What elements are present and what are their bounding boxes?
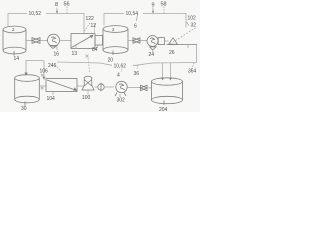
wire tick under ramp [187, 45, 189, 49]
svg-text:204: 204 [159, 107, 168, 112]
svg-text:14: 14 [14, 56, 20, 62]
wire valve3 to tank4 [147, 87, 152, 89]
check valve / orifice [98, 83, 104, 91]
wire bus A (top-left header line) [8, 14, 84, 34]
burner/ejector (100) [82, 76, 95, 90]
wire drop to box2 [43, 61, 45, 78]
wire stub near box1 top right [94, 24, 96, 34]
node label 10,52 on bus A [27, 10, 46, 17]
wire orifice to pump3 [104, 86, 114, 88]
svg-text:104: 104 [47, 96, 56, 102]
svg-text:4: 4 [117, 73, 120, 79]
pump P2 (24) [147, 36, 164, 51]
wire tick label 84 [97, 45, 99, 48]
wire tick 8 arrow [56, 8, 58, 14]
svg-text:58: 58 [161, 2, 167, 8]
wire leader 6 below bus B [137, 14, 138, 21]
wire right downcomer [196, 45, 198, 63]
svg-text:246: 246 [48, 63, 57, 69]
wire bottom bus (10,62) [26, 61, 44, 74]
wire leader 32 [187, 22, 190, 26]
svg-text:364: 364 [188, 69, 197, 75]
svg-text:8: 8 [55, 2, 58, 8]
dashed diagonal skimmer [170, 28, 196, 45]
wire leader label 12 (dashed) [85, 23, 91, 31]
wire tank3 to box2 [39, 85, 46, 87]
wire tick label 104 [52, 92, 54, 96]
valve V3 [141, 85, 148, 90]
wire tick label 302 [119, 94, 121, 97]
svg-text:9: 9 [152, 3, 155, 9]
wire tick label 4 [121, 69, 122, 72]
svg-text:10,54: 10,54 [126, 11, 139, 17]
svg-text:56: 56 [64, 2, 70, 8]
wire tick label 100 [87, 90, 89, 95]
svg-text:32: 32 [191, 23, 197, 29]
svg-text:106: 106 [40, 69, 49, 75]
wire drops into tank4 [162, 63, 164, 79]
svg-text:24: 24 [149, 52, 155, 58]
wire x-mark small [41, 87, 44, 90]
tank T3 (30) [15, 75, 40, 106]
wire tick label 36 [137, 66, 138, 70]
tank T1 (vessel 2) [3, 26, 26, 55]
wire tick for label 16 [56, 47, 58, 51]
svg-text:100: 100 [82, 95, 91, 101]
wire tick label 24 [152, 50, 154, 52]
svg-text:10,52: 10,52 [29, 11, 42, 17]
svg-text:13: 13 [72, 51, 78, 57]
arrow into tank3 [24, 73, 27, 77]
svg-text:16: 16 [54, 52, 60, 58]
heat-exchanger box E1 (12) [71, 34, 103, 49]
pump P3 (302) [115, 81, 127, 96]
wire tick 56 dashed leader [66, 7, 68, 14]
separator ramp (26) [167, 44, 198, 46]
svg-text:102: 102 [188, 16, 197, 22]
svg-text:122: 122 [86, 16, 95, 22]
valve V1 [32, 38, 40, 44]
svg-text:10,62: 10,62 [114, 64, 127, 70]
wire pump2 outlet [164, 40, 168, 42]
wire tank2 outlet [128, 40, 133, 42]
tank T2 (vessel 22) [103, 26, 128, 55]
svg-text:20: 20 [108, 58, 114, 64]
triangle float [169, 38, 178, 45]
wire pump1 to box1 [59, 40, 71, 42]
wire pump3 to valve3 [127, 86, 140, 88]
wire tick label 13 [75, 45, 77, 49]
svg-text:30: 30 [21, 106, 27, 112]
wire leader 364 (dashed) [192, 63, 195, 69]
wire bus B (top-right header line) [104, 14, 186, 28]
pump P1 (16) [48, 34, 60, 48]
wire box2 outlet [77, 85, 84, 87]
heat-exchanger box E2 (104) [46, 79, 77, 92]
svg-text:26: 26 [169, 50, 175, 56]
svg-text:12: 12 [91, 23, 97, 29]
svg-text:302: 302 [117, 98, 126, 104]
wire x-mark and dashed drop to burner [86, 55, 89, 58]
wire tank1 outlet [26, 40, 32, 42]
wire valve1 to pump1 [40, 40, 48, 42]
valve V2 [133, 38, 140, 44]
wire tick 9 arrow [152, 8, 154, 14]
svg-text:6: 6 [134, 24, 137, 30]
wire tick 58 dashed leader [163, 7, 165, 14]
wire burner to orifice [95, 86, 98, 88]
tank T4 (204) [152, 78, 183, 105]
node label 10,54 on bus B [124, 10, 143, 17]
wire valve2 to pump2 [140, 40, 147, 42]
node label 10,62 on bottom bus [112, 61, 133, 69]
svg-text:36: 36 [134, 71, 140, 77]
svg-text:84: 84 [92, 47, 98, 53]
